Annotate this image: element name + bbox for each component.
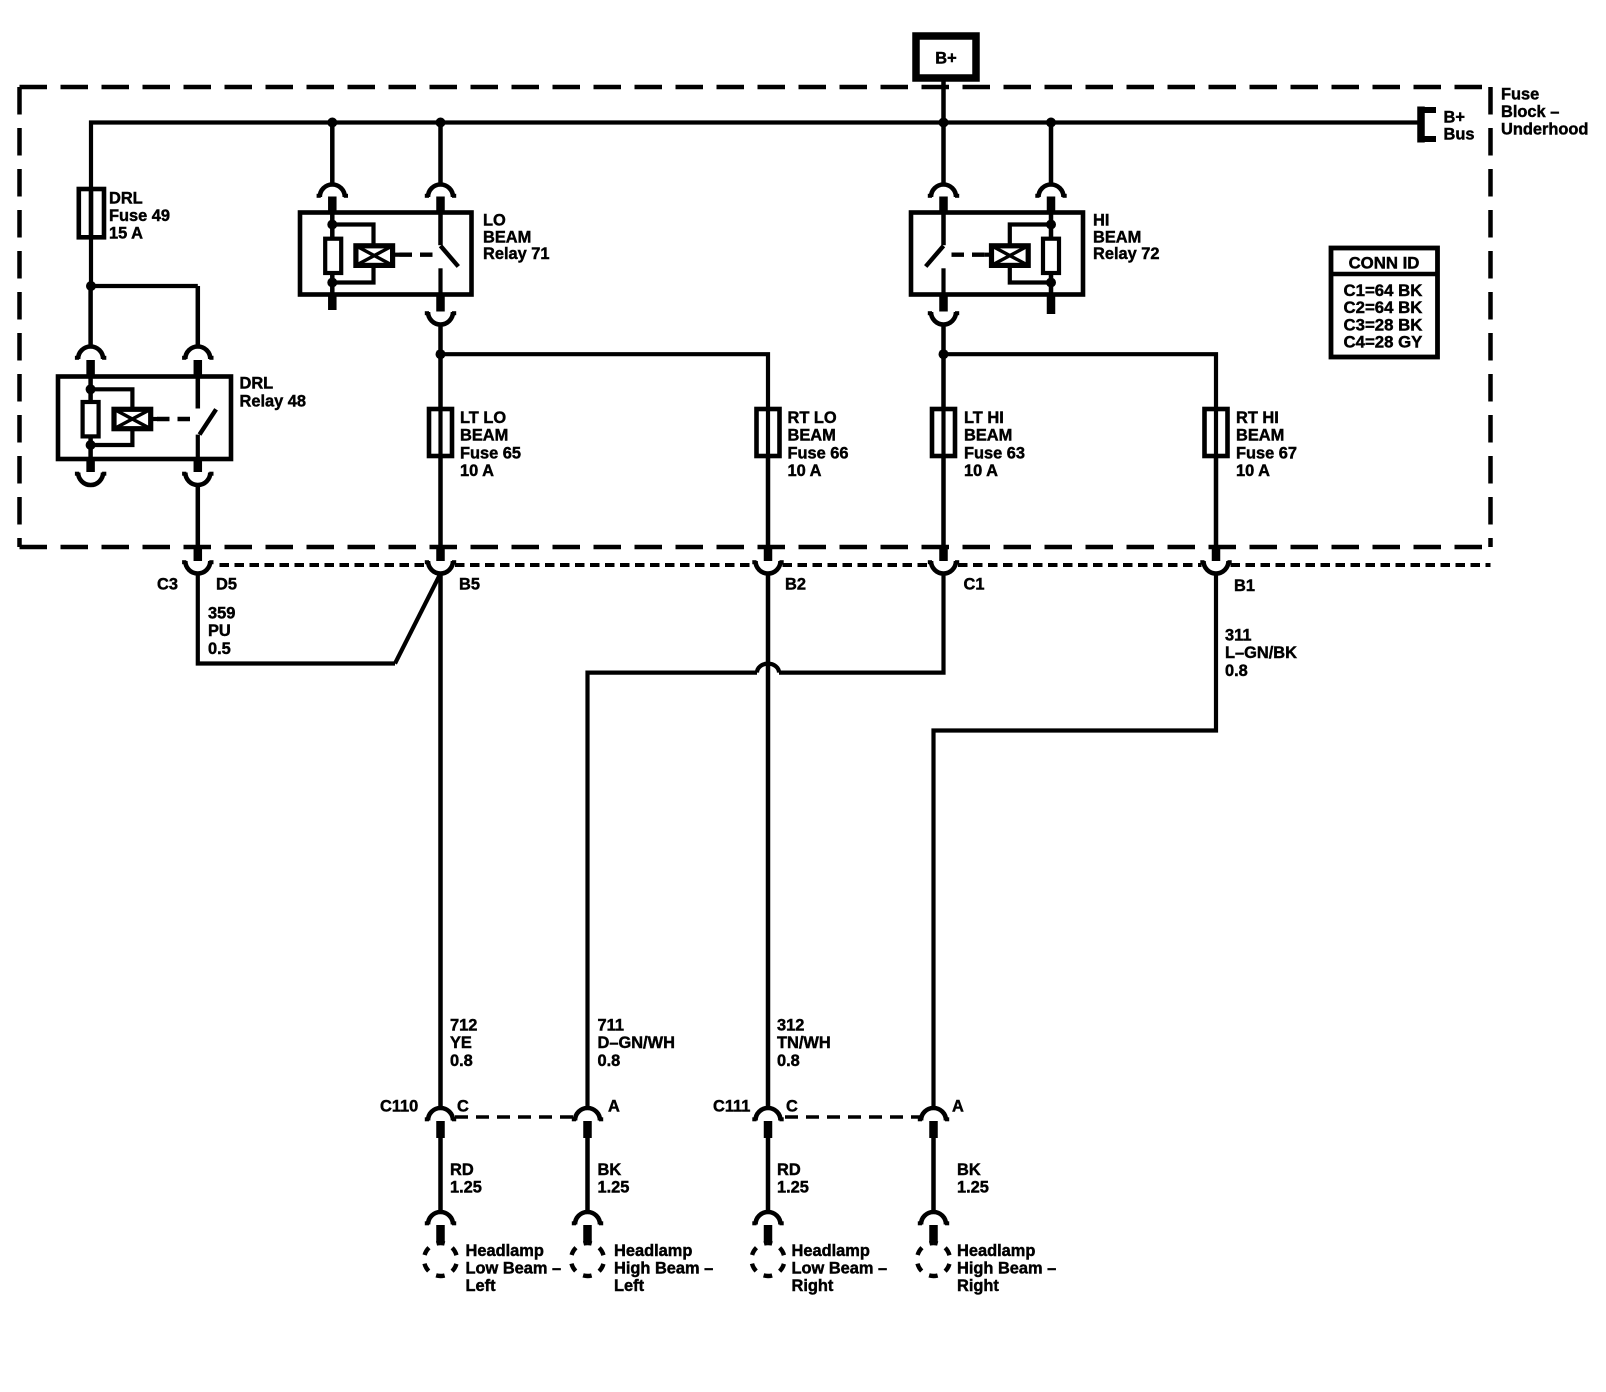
relay 48 coil junction bottom <box>86 440 96 450</box>
junction bus / relay 71 pin 30 <box>436 118 446 128</box>
svg-text:LT LO: LT LO <box>460 409 506 427</box>
relay 72 switch blade <box>926 246 944 295</box>
relay 72 coil winding <box>985 246 1029 266</box>
svg-text:Low Beam –: Low Beam – <box>466 1260 562 1278</box>
relay 72 coil junction top <box>1046 220 1056 230</box>
connector relay 72 pin 87 (bottom left) <box>928 295 959 325</box>
relay 48 coil pin conductor <box>88 377 93 460</box>
svg-text:0.8: 0.8 <box>1225 662 1248 680</box>
svg-text:B1: B1 <box>1234 577 1255 595</box>
svg-text:C1=64 BK: C1=64 BK <box>1344 281 1423 300</box>
svg-text:B2: B2 <box>785 576 806 594</box>
svg-text:BEAM: BEAM <box>1236 427 1284 445</box>
svg-text:0.8: 0.8 <box>598 1052 621 1070</box>
conn id table <box>1331 248 1438 357</box>
svg-text:711: 711 <box>598 1017 624 1035</box>
label C3 <box>157 576 178 594</box>
fuse F65 LT LO BEAM 10 A <box>429 409 452 456</box>
svg-text:Fuse 49: Fuse 49 <box>109 207 170 225</box>
svg-text:C1: C1 <box>964 576 985 594</box>
junction high beam feed <box>939 349 949 359</box>
relay 48 switch contact <box>196 377 201 409</box>
wire 712 YE 0.8 (left low beam) <box>438 574 443 1109</box>
relay 48 switch blade <box>198 409 216 459</box>
relay 71 coil winding <box>356 246 400 266</box>
connector pin B1 <box>1200 547 1231 573</box>
svg-text:High Beam –: High Beam – <box>614 1260 713 1278</box>
svg-text:RT HI: RT HI <box>1236 409 1279 427</box>
svg-text:Relay 72: Relay 72 <box>1093 245 1160 263</box>
connector C110 pin C <box>425 1108 456 1138</box>
wire B+ bus (horizontal feed) <box>91 123 1418 190</box>
connector face dotted line <box>220 563 1491 567</box>
svg-text:Relay 71: Relay 71 <box>483 245 550 263</box>
fuse F63 LT HI BEAM 10 A <box>932 409 955 456</box>
svg-text:1.25: 1.25 <box>598 1179 630 1197</box>
svg-text:1.25: 1.25 <box>777 1179 809 1197</box>
svg-text:YE: YE <box>450 1034 472 1052</box>
headlamp low beam left connector and bulb <box>424 1212 457 1276</box>
relay 71 coil junction top <box>327 220 337 230</box>
junction bus / relay 72 pin 86 <box>1046 118 1056 128</box>
wire bus to relay 71 pin 86 <box>330 123 335 185</box>
svg-text:D5: D5 <box>216 576 237 594</box>
label pin D5 <box>216 576 237 594</box>
label pin C1 <box>964 576 985 594</box>
wire BK 1.25 (high beam right) <box>931 1138 936 1212</box>
svg-text:BEAM: BEAM <box>1093 228 1141 246</box>
headlamp high beam left connector and bulb <box>571 1212 604 1276</box>
wire relay 72 output <box>941 325 946 355</box>
connector relay 48 pin 85 (bottom left) <box>75 459 106 485</box>
connector C111 pin C <box>752 1108 783 1138</box>
connector pin B5 <box>425 547 456 573</box>
label Headlamp Low Beam - Right <box>792 1242 888 1295</box>
relay 48 coil junction top <box>86 384 96 394</box>
svg-text:TN/WH: TN/WH <box>777 1034 831 1052</box>
svg-text:Headlamp: Headlamp <box>466 1242 544 1260</box>
relay K72 HI BEAM Relay 72 box <box>911 213 1083 295</box>
headlamp high beam right connector and bulb <box>917 1212 950 1276</box>
relay 72 coil junction bottom <box>1046 278 1056 288</box>
svg-text:Right: Right <box>792 1277 834 1295</box>
svg-text:Right: Right <box>957 1277 999 1295</box>
connector relay 48 coil pin (top left) <box>75 347 106 377</box>
svg-text:Fuse 67: Fuse 67 <box>1236 444 1297 462</box>
svg-text:C3=28 BK: C3=28 BK <box>1344 315 1423 334</box>
label LT HI BEAM Fuse 63 10 A <box>964 409 1025 480</box>
svg-text:A: A <box>952 1098 964 1116</box>
svg-text:1.25: 1.25 <box>957 1179 989 1197</box>
svg-text:B+: B+ <box>935 50 956 68</box>
svg-text:D–GN/WH: D–GN/WH <box>598 1034 675 1052</box>
svg-text:Fuse 65: Fuse 65 <box>460 444 521 462</box>
connector relay 48 switch pin (top right) <box>182 347 213 377</box>
label RT LO BEAM Fuse 66 10 A <box>788 409 849 480</box>
relay 72 coil-switch link (dashed) <box>952 252 986 256</box>
label LT LO BEAM Fuse 65 10 A <box>460 409 521 480</box>
junction DRL relay feed <box>86 281 96 291</box>
relay 71 switch contact <box>438 213 443 246</box>
label B+ Bus <box>1444 109 1475 144</box>
svg-text:359: 359 <box>208 605 235 623</box>
label 311 L-GN/BK 0.8 <box>1225 627 1297 680</box>
svg-text:A: A <box>608 1098 620 1116</box>
relay 72 coil loop wire <box>1010 225 1051 283</box>
wire RD 1.25 (low beam left) <box>438 1138 443 1212</box>
label C111 pin C <box>786 1098 798 1116</box>
svg-text:Block –: Block – <box>1501 103 1559 121</box>
fuse F66 RT LO BEAM 10 A <box>757 409 780 456</box>
svg-text:0.5: 0.5 <box>208 640 231 658</box>
relay 72 coil pin conductor <box>1049 213 1054 295</box>
label C110 pin C <box>457 1098 469 1116</box>
connector C3 pin D5 <box>182 547 213 573</box>
connector relay 71 pin 86 (top left) <box>317 184 348 212</box>
headlamp low beam right connector and bulb <box>751 1212 784 1276</box>
label Headlamp High Beam - Right <box>957 1242 1056 1295</box>
connector relay 72 pin 85 (bottom right) <box>1047 295 1056 315</box>
wire relay 48 output to connector C3 <box>196 485 201 547</box>
svg-text:C2=64 BK: C2=64 BK <box>1344 298 1423 317</box>
svg-text:CONN ID: CONN ID <box>1349 254 1420 273</box>
connector relay 71 pin 87 (bottom right) <box>425 295 456 325</box>
svg-text:10 A: 10 A <box>788 462 822 480</box>
svg-text:PU: PU <box>208 622 231 640</box>
label 312 TN/WH 0.8 <box>777 1017 831 1070</box>
wire BK 1.25 (high beam left) <box>585 1138 590 1212</box>
label BK 1.25 (left) <box>598 1161 630 1197</box>
svg-text:BEAM: BEAM <box>964 427 1012 445</box>
svg-text:Headlamp: Headlamp <box>957 1242 1035 1260</box>
wire fuse 66 to connector B2 <box>766 456 771 547</box>
relay 71 coil loop wire <box>332 225 373 283</box>
svg-text:0.8: 0.8 <box>450 1052 473 1070</box>
connector C110 mating dashed link <box>455 1115 575 1119</box>
relay 72 switch contact <box>941 213 946 246</box>
label pin B5 <box>459 576 480 594</box>
junction bus / relay 71 pin 86 <box>327 118 337 128</box>
svg-text:1.25: 1.25 <box>450 1179 482 1197</box>
wire branch to relay 48 pin 86 <box>88 286 93 347</box>
svg-text:RD: RD <box>777 1161 801 1179</box>
connector relay 72 pin 30 (top left) <box>928 184 959 212</box>
label C110 <box>380 1098 418 1116</box>
wire RD 1.25 (low beam right) <box>766 1138 771 1212</box>
svg-text:0.8: 0.8 <box>777 1052 800 1070</box>
relay K48 DRL Relay 48 box <box>58 377 231 460</box>
wire B+ feed to bus <box>941 78 946 123</box>
label HI BEAM Relay 72 <box>1093 212 1160 264</box>
relay 71 coil pin conductor <box>330 213 335 295</box>
svg-text:C4=28 GY: C4=28 GY <box>1344 333 1423 352</box>
svg-text:L–GN/BK: L–GN/BK <box>1225 644 1297 662</box>
wire branch to relay 48 pin 30 <box>196 286 201 347</box>
label BK 1.25 (right) <box>957 1161 989 1197</box>
svg-text:Left: Left <box>614 1277 645 1295</box>
relay 71 coil-switch link (dashed) <box>400 252 434 256</box>
fuse block - underhood dashed boundary <box>20 87 1491 547</box>
label pin B1 <box>1234 577 1255 595</box>
connector relay 71 pin 30 (top right) <box>425 184 456 212</box>
label Headlamp Low Beam - Left <box>466 1242 562 1295</box>
wire fuse 65 to connector B5 <box>438 456 443 547</box>
svg-text:BEAM: BEAM <box>460 427 508 445</box>
junction low beam feed <box>436 349 446 359</box>
svg-text:Low Beam –: Low Beam – <box>792 1260 888 1278</box>
svg-text:Headlamp: Headlamp <box>614 1242 692 1260</box>
relay 48 suppression resistor <box>83 402 99 436</box>
svg-text:Fuse 66: Fuse 66 <box>788 444 849 462</box>
label 712 YE 0.8 <box>450 1017 477 1070</box>
fuse F49 DRL 15 A <box>79 189 104 237</box>
svg-text:LO: LO <box>483 212 506 230</box>
battery positive voltage symbol B+ <box>916 36 976 78</box>
wire low beam feed to fuse 65 <box>438 354 443 409</box>
wire relay 71 output <box>438 325 443 355</box>
svg-text:C3: C3 <box>157 576 178 594</box>
svg-text:C: C <box>786 1098 798 1116</box>
wire bus to relay 72 pin 30 <box>941 123 946 185</box>
svg-text:BEAM: BEAM <box>788 427 836 445</box>
label C111 pin A <box>952 1098 964 1116</box>
svg-text:10 A: 10 A <box>460 462 494 480</box>
svg-text:C110: C110 <box>380 1098 418 1116</box>
wire 711 D-GN/WH 0.8 (left high beam) <box>588 574 944 1109</box>
relay 71 coil junction bottom <box>327 278 337 288</box>
wire 311 L-GN/BK 0.8 (right high beam) <box>934 574 1217 1109</box>
wire bus to relay 72 pin 86 <box>1049 123 1054 185</box>
connector relay 48 pin 87 (bottom right) <box>182 459 213 485</box>
fuse F67 RT HI BEAM 10 A <box>1205 409 1228 456</box>
svg-text:10 A: 10 A <box>1236 462 1270 480</box>
connector C111 pin A <box>918 1108 949 1138</box>
label Fuse Block - Underhood <box>1501 86 1588 139</box>
label LO BEAM Relay 71 <box>483 212 550 264</box>
svg-text:RD: RD <box>450 1161 474 1179</box>
label Headlamp High Beam - Left <box>614 1242 713 1295</box>
svg-text:B5: B5 <box>459 576 480 594</box>
svg-text:C111: C111 <box>713 1098 750 1116</box>
wire fuse 49 to DRL relay branch <box>91 237 198 286</box>
svg-text:312: 312 <box>777 1017 804 1035</box>
svg-text:B+: B+ <box>1444 109 1465 127</box>
relay 48 coil loop wire <box>91 389 133 445</box>
svg-text:DRL: DRL <box>109 190 143 208</box>
svg-text:BK: BK <box>957 1161 981 1179</box>
svg-text:Underhood: Underhood <box>1501 121 1588 139</box>
connector relay 72 pin 86 (top right) <box>1035 184 1066 212</box>
label C111 <box>713 1098 750 1116</box>
wire high beam feed to fuse 63 <box>941 354 946 409</box>
wire fuse 67 to connector B1 <box>1214 456 1219 547</box>
svg-text:BEAM: BEAM <box>483 228 531 246</box>
label DRL Relay 48 <box>240 375 307 411</box>
svg-text:Headlamp: Headlamp <box>792 1242 870 1260</box>
connector relay 71 pin 85 (bottom left) <box>328 295 337 311</box>
label pin B2 <box>785 576 806 594</box>
wire bus to relay 71 pin 30 <box>438 123 443 185</box>
svg-text:10 A: 10 A <box>964 462 998 480</box>
relay 48 coil winding <box>114 409 158 428</box>
relay 48 coil-switch link (dashed) <box>157 417 190 421</box>
svg-text:Left: Left <box>466 1277 497 1295</box>
relay K71 LO BEAM Relay 71 box <box>300 213 472 295</box>
relay 72 suppression resistor <box>1043 239 1059 273</box>
svg-text:Relay 48: Relay 48 <box>240 392 307 410</box>
svg-text:RT LO: RT LO <box>788 409 837 427</box>
B+ bus terminal bracket <box>1418 107 1436 143</box>
wire 312 TN/WH 0.8 (right low beam) <box>766 574 771 1109</box>
relay 71 suppression resistor <box>325 239 341 273</box>
wire 359 PU 0.5 (DRL output merge) <box>198 574 441 664</box>
svg-text:LT HI: LT HI <box>964 409 1004 427</box>
wire low beam feed to fuse 66 <box>441 354 769 409</box>
svg-text:DRL: DRL <box>240 375 274 393</box>
svg-text:HI: HI <box>1093 212 1109 230</box>
label C110 pin A <box>608 1098 620 1116</box>
connector C110 pin A <box>572 1108 603 1138</box>
label RT HI BEAM Fuse 67 10 A <box>1236 409 1297 480</box>
wire high beam feed to fuse 67 <box>944 354 1217 409</box>
wire fuse 63 to connector C1 <box>941 456 946 547</box>
label RD 1.25 (left) <box>450 1161 482 1197</box>
svg-text:311: 311 <box>1225 627 1251 645</box>
label 711 D-GN/WH 0.8 <box>598 1017 675 1070</box>
svg-text:High Beam –: High Beam – <box>957 1260 1056 1278</box>
label RD 1.25 (right) <box>777 1161 809 1197</box>
svg-text:712: 712 <box>450 1017 477 1035</box>
label 359 PU 0.5 <box>208 605 235 658</box>
svg-text:C: C <box>457 1098 469 1116</box>
relay 71 switch blade <box>441 246 459 295</box>
connector C111 mating dashed link <box>785 1115 921 1119</box>
svg-text:Fuse: Fuse <box>1501 86 1539 104</box>
label DRL Fuse 49 15 A <box>109 190 170 243</box>
svg-text:BK: BK <box>598 1161 622 1179</box>
svg-text:Fuse 63: Fuse 63 <box>964 444 1025 462</box>
svg-text:Bus: Bus <box>1444 126 1475 144</box>
svg-text:15 A: 15 A <box>109 225 143 243</box>
connector pin C1 <box>928 547 959 573</box>
connector pin B2 <box>752 547 783 573</box>
junction bus / relay 72 pin 30 <box>939 118 949 128</box>
